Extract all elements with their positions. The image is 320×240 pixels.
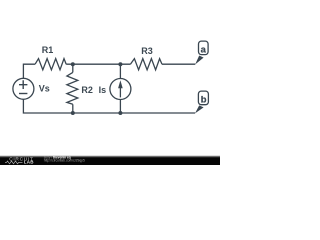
wire Is top stub: [119, 64, 121, 78]
wire R3 right to terminal a: [162, 63, 195, 65]
footer watermark bar: [0, 155, 220, 157]
wire R2 top stub: [72, 64, 74, 72]
terminal b box: [198, 91, 208, 105]
resistor R2: [67, 72, 78, 104]
svg-text:R2: R2: [81, 85, 93, 95]
wire R2 bottom stub: [72, 104, 74, 113]
node junction dot R2 bottom: [71, 111, 75, 115]
terminal a box: [199, 41, 209, 55]
voltage source Vs: [13, 78, 34, 99]
terminal b flag: [195, 105, 204, 113]
node junction dot R2 top: [71, 62, 75, 66]
wire Is bottom stub: [119, 100, 121, 114]
current source Is: [110, 79, 131, 100]
svg-text:LAB: LAB: [24, 160, 34, 165]
svg-text:http://circuitlab.com/c/29qp5: http://circuitlab.com/c/29qp5: [44, 159, 85, 163]
node junction dot Is top: [118, 62, 122, 66]
footer logo resistor zigzag: [5, 161, 23, 164]
resistor R1: [35, 59, 66, 70]
svg-text:R1: R1: [42, 45, 54, 55]
resistor R3: [130, 59, 162, 70]
svg-text:Vs: Vs: [39, 84, 50, 94]
node junction dot Is bottom: [118, 111, 122, 115]
svg-text:a: a: [201, 43, 207, 54]
svg-text:R3: R3: [141, 46, 153, 56]
terminal a flag: [195, 56, 203, 65]
wire bottom rail Vs bottom to terminal b: [23, 99, 195, 113]
svg-text:b: b: [201, 93, 207, 104]
wire Vs top to R1 left: [23, 64, 35, 78]
svg-text:Is: Is: [99, 85, 107, 95]
wire R1 right to R3 left (top rail): [66, 63, 130, 65]
